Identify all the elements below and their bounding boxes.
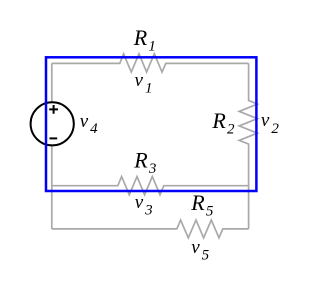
resistor R1 (top branch zigzag with leads): [52, 54, 249, 72]
resistor R5 (bottom branch zigzag with leads): [52, 220, 249, 238]
resistor R3 (middle horizontal branch zigzag with leads): [52, 177, 249, 195]
minus terminal: [50, 137, 58, 139]
plus terminal: [49, 105, 58, 114]
wire: left vertical branch (v4 source branch): [51, 63, 53, 229]
resistor R2 (right branch zigzag with leads): [239, 63, 257, 229]
blue KVL loop rectangle: [46, 57, 256, 191]
voltage source V4 circle: [31, 102, 74, 145]
